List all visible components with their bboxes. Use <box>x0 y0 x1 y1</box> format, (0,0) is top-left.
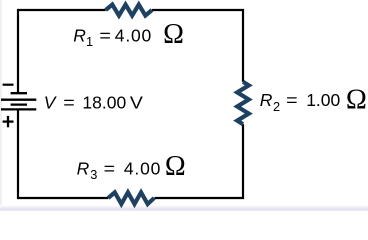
battery V (multicell) <box>1 93 36 109</box>
svg-text:R: R <box>73 26 86 46</box>
svg-text:V: V <box>130 93 143 113</box>
label R2 = 1.00 Ohm <box>260 85 367 116</box>
svg-text:2: 2 <box>273 99 280 114</box>
label V = 18.00 V <box>44 93 143 113</box>
svg-text:=: = <box>63 93 75 113</box>
svg-text:=: = <box>104 158 116 178</box>
svg-text:Ω: Ω <box>346 85 367 116</box>
label R1 = 4.00 Ohm <box>73 19 184 50</box>
battery minus terminal sign <box>3 84 14 86</box>
svg-text:Ω: Ω <box>165 151 186 182</box>
wire top-right segment <box>152 10 243 82</box>
svg-text:=: = <box>99 26 111 46</box>
svg-text:R: R <box>77 158 90 178</box>
svg-text:1: 1 <box>86 34 93 49</box>
svg-text:R: R <box>260 90 273 110</box>
resistor R3 <box>108 192 154 204</box>
resistor R1 <box>106 5 152 16</box>
svg-text:18.00: 18.00 <box>82 93 126 113</box>
svg-text:Ω: Ω <box>163 19 184 50</box>
wire top-left segment <box>18 10 106 94</box>
svg-text:3: 3 <box>90 167 97 182</box>
label R3 = 4.00 Ohm <box>77 151 186 182</box>
wire bottom-left segment <box>18 109 108 198</box>
svg-text:4.00: 4.00 <box>115 26 152 46</box>
wire bottom-right segment <box>155 124 244 198</box>
svg-text:1.00: 1.00 <box>306 90 340 110</box>
battery plus terminal sign <box>3 116 14 127</box>
resistor R2 <box>237 82 249 124</box>
svg-text:4.00: 4.00 <box>124 158 161 178</box>
svg-text:=: = <box>286 90 298 110</box>
